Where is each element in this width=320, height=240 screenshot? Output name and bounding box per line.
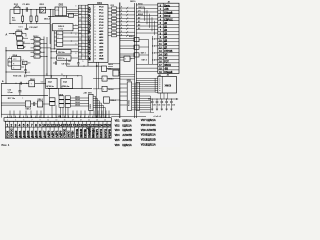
svg-text:ГОТОВ: ГОТОВ <box>75 129 79 138</box>
svg-text:МС КР1816ВЕ31 ПРОЦЕССОР ОЗУ: МС КР1816ВЕ31 ПРОЦЕССОР ОЗУ <box>88 7 92 61</box>
svg-text:DD7.2: DD7.2 <box>142 60 147 62</box>
svg-text:2: 2 <box>11 123 13 127</box>
svg-text:1: 1 <box>35 44 36 46</box>
svg-text:0,1мк: 0,1мк <box>8 92 13 94</box>
svg-text:ЧТЕН: ЧТЕН <box>71 131 75 138</box>
svg-text:1: 1 <box>7 120 8 122</box>
svg-text:9: 9 <box>94 28 95 30</box>
svg-text:DD1.2: DD1.2 <box>44 19 51 21</box>
svg-text:CT2: CT2 <box>13 59 16 61</box>
svg-text:1: 1 <box>35 52 36 54</box>
svg-text:25: 25 <box>104 120 106 122</box>
svg-text:21: 21 <box>88 120 90 122</box>
svg-text:DD8.5: DD8.5 <box>75 105 80 107</box>
svg-text:ПИТ5В: ПИТ5В <box>83 129 87 138</box>
svg-text:ДАН6: ДАН6 <box>38 130 42 138</box>
svg-text:3: 3 <box>94 10 95 12</box>
svg-text:ОБЩИЙ: ОБЩИЙ <box>87 127 91 137</box>
svg-text:23: 23 <box>96 120 98 122</box>
svg-text:R9 10к: R9 10к <box>58 52 66 54</box>
svg-text:АДР0: АДР0 <box>46 130 50 138</box>
svg-text:С8 0,1: С8 0,1 <box>25 72 30 74</box>
svg-text:АДР1: АДР1 <box>50 130 54 138</box>
svg-text:АЛ307Б: АЛ307Б <box>122 139 132 142</box>
svg-text:СЧЕТЧ: СЧЕТЧ <box>95 129 99 138</box>
svg-text:КНОП1: КНОП1 <box>99 128 103 137</box>
svg-text:1: 1 <box>35 39 36 41</box>
svg-text:DD3.1: DD3.1 <box>17 30 22 32</box>
svg-text:Д0: Д0 <box>138 17 140 19</box>
svg-text:3: 3 <box>15 120 16 122</box>
svg-text:16: 16 <box>94 49 96 51</box>
svg-text:DD5.2: DD5.2 <box>108 64 113 66</box>
svg-text:DD6.2: DD6.2 <box>26 109 31 111</box>
svg-text:5: 5 <box>23 120 24 122</box>
svg-text:ВВОДН: ВВОДН <box>91 128 95 138</box>
svg-text:C10: C10 <box>153 105 156 107</box>
svg-text:УН7А: УН7А <box>89 103 92 108</box>
svg-text:C12: C12 <box>162 105 165 107</box>
svg-text:1: 1 <box>103 79 104 81</box>
svg-text:Д2: Д2 <box>138 24 140 26</box>
svg-text:VD5: VD5 <box>115 139 120 142</box>
svg-text:R17 10к: R17 10к <box>8 98 15 100</box>
svg-text:15: 15 <box>94 46 96 48</box>
svg-text:ДАН1: ДАН1 <box>18 130 22 138</box>
svg-text:9: 9 <box>40 120 41 122</box>
svg-text:DD9: DD9 <box>88 93 92 95</box>
svg-text:КТ315: КТ315 <box>129 99 131 106</box>
svg-text:КД521А: КД521А <box>122 144 131 147</box>
svg-text:C1 430: C1 430 <box>22 3 30 6</box>
svg-text:ДАН0: ДАН0 <box>14 130 18 138</box>
svg-text:11: 11 <box>47 120 49 122</box>
svg-text:АЛ307Б: АЛ307Б <box>146 129 156 132</box>
svg-text:Д1: Д1 <box>138 21 140 23</box>
svg-text:1: 1 <box>24 41 25 43</box>
svg-text:100: 100 <box>28 62 31 64</box>
svg-text:КД522Б: КД522Б <box>122 129 131 132</box>
svg-text:DD8.3: DD8.3 <box>75 102 80 104</box>
svg-text:КД522Б: КД522Б <box>146 139 155 142</box>
svg-text:3: 3 <box>75 15 76 17</box>
svg-text:10: 10 <box>94 31 96 33</box>
svg-text:1: 1 <box>35 48 36 50</box>
svg-text:DD1: DD1 <box>97 2 102 5</box>
svg-text:A: A <box>5 32 7 36</box>
svg-text:27: 27 <box>46 74 48 76</box>
svg-text:3: 3 <box>75 34 76 36</box>
svg-text:DD2: DD2 <box>59 4 64 6</box>
svg-text:ДАН5: ДАН5 <box>34 130 38 138</box>
svg-text:VD2: VD2 <box>115 124 120 127</box>
svg-text:3: 3 <box>75 53 76 55</box>
svg-text:DD5.3: DD5.3 <box>108 79 113 81</box>
svg-text:R11 1к: R11 1к <box>58 58 65 60</box>
svg-text:DD7.1: DD7.1 <box>141 52 146 54</box>
svg-text:DD3.2: DD3.2 <box>33 36 38 38</box>
svg-text:КД521А: КД521А <box>122 124 131 127</box>
svg-text:1: 1 <box>35 56 36 58</box>
svg-text:АДР2: АДР2 <box>54 130 58 138</box>
svg-text:2: 2 <box>94 7 95 9</box>
svg-text:5: 5 <box>23 123 25 127</box>
svg-text:СТРОБ: СТРОБ <box>63 129 67 138</box>
svg-text:2: 2 <box>25 47 26 49</box>
svg-text:26: 26 <box>107 123 111 127</box>
svg-text:7: 7 <box>31 123 33 127</box>
svg-text:ДАН3: ДАН3 <box>26 130 30 138</box>
svg-text:СБРОС: СБРОС <box>138 7 145 9</box>
svg-text:DD8.1: DD8.1 <box>75 97 80 99</box>
svg-text:17: 17 <box>94 52 96 54</box>
svg-text:СБРОС: СБРОС <box>10 128 14 137</box>
svg-text:11: 11 <box>94 34 96 36</box>
svg-text:КНОП2: КНОП2 <box>103 128 107 137</box>
svg-text:14: 14 <box>94 43 96 45</box>
svg-text:9: 9 <box>82 61 83 63</box>
svg-text:17: 17 <box>72 120 74 122</box>
svg-text:DD6.1: DD6.1 <box>30 79 35 81</box>
svg-text:DD11: DD11 <box>127 80 132 82</box>
svg-text:КД521А: КД521А <box>146 134 155 137</box>
svg-text:3: 3 <box>15 123 17 127</box>
svg-text:DD2.2: DD2.2 <box>58 26 65 28</box>
svg-text:ДАН2: ДАН2 <box>22 130 26 138</box>
svg-text:DD10: DD10 <box>130 1 136 3</box>
svg-text:9: 9 <box>39 123 41 127</box>
svg-text:7: 7 <box>31 120 32 122</box>
svg-text:2: 2 <box>9 57 10 59</box>
svg-text:PME: PME <box>99 58 104 60</box>
svg-text:ALE: ALE <box>99 54 104 57</box>
svg-text:DD6.3: DD6.3 <box>38 99 43 101</box>
svg-text:DD8.4: DD8.4 <box>111 99 116 102</box>
svg-text:ДАН4: ДАН4 <box>30 130 34 138</box>
svg-text:DD4: DD4 <box>13 54 18 57</box>
svg-text:ЗВОНК: ЗВОНК <box>79 128 83 137</box>
svg-text:7: 7 <box>94 22 95 24</box>
svg-text:1: 1 <box>125 59 126 61</box>
svg-text:УМС8: УМС8 <box>165 84 172 87</box>
svg-text:6: 6 <box>94 19 95 21</box>
svg-text:Д3: Д3 <box>138 28 140 30</box>
svg-text:АДР3: АДР3 <box>59 130 63 138</box>
svg-text:C6: C6 <box>68 61 70 63</box>
svg-text:1: 1 <box>103 89 104 91</box>
svg-text:23: 23 <box>61 74 63 76</box>
svg-text:ДЛ88,4м: ДЛ88,4м <box>62 85 70 88</box>
svg-text:CT10: CT10 <box>58 29 63 31</box>
svg-text:КС133А: КС133А <box>146 124 155 127</box>
svg-text:Рис. 1: Рис. 1 <box>2 143 10 147</box>
svg-text:3: 3 <box>75 44 76 46</box>
svg-text:15: 15 <box>64 120 66 122</box>
svg-text:VD4: VD4 <box>115 134 120 137</box>
svg-text:ЗАПС: ЗАПС <box>67 130 71 137</box>
svg-text:ВВОД: ВВОД <box>138 14 144 16</box>
svg-text:19: 19 <box>94 58 96 60</box>
svg-text:4: 4 <box>94 13 95 15</box>
svg-text:18: 18 <box>94 55 96 57</box>
svg-text:C11: C11 <box>158 105 161 107</box>
svg-text:12: 12 <box>94 37 96 39</box>
svg-text:КД521А: КД521А <box>122 120 131 123</box>
svg-text:6: 6 <box>27 123 29 127</box>
svg-text:8: 8 <box>35 123 37 127</box>
svg-text:13: 13 <box>94 40 96 42</box>
svg-text:ЦГ88,3м: ЦГ88,3м <box>46 86 54 88</box>
svg-text:4: 4 <box>19 123 21 127</box>
svg-text:C7: C7 <box>21 59 23 61</box>
svg-text:х1 х2 х3: х1 х2 х3 <box>153 116 160 118</box>
svg-text:DD1: DD1 <box>40 4 45 6</box>
svg-text:CT2: CT2 <box>56 10 60 12</box>
svg-text:КД521А: КД521А <box>146 119 155 122</box>
svg-text:РЕЗРВ: РЕЗРВ <box>107 129 111 138</box>
svg-text:ПУСК: ПУСК <box>6 130 10 137</box>
svg-text:VD6: VD6 <box>115 144 120 147</box>
svg-text:3: 3 <box>75 5 76 7</box>
svg-text:VD3: VD3 <box>115 129 120 132</box>
svg-text:ДАН7: ДАН7 <box>42 130 46 138</box>
svg-text:5: 5 <box>94 16 95 18</box>
svg-text:1: 1 <box>6 123 8 127</box>
svg-text:DD5.4: DD5.4 <box>108 88 113 91</box>
svg-text:КД521А: КД521А <box>146 144 155 147</box>
svg-text:АЛ307Б: АЛ307Б <box>122 134 132 137</box>
svg-text:19: 19 <box>80 120 82 122</box>
svg-text:C13: C13 <box>167 105 170 107</box>
svg-text:DD9.1: DD9.1 <box>129 36 134 38</box>
svg-text:5: 5 <box>9 61 10 63</box>
svg-text:R15 C14: R15 C14 <box>13 75 22 78</box>
svg-text:13: 13 <box>55 120 57 122</box>
svg-text:VD1: VD1 <box>115 120 120 123</box>
svg-text:C2 0,047: C2 0,047 <box>29 26 38 29</box>
svg-text:х: х <box>22 98 23 100</box>
svg-text:R13: R13 <box>111 5 114 7</box>
svg-text:3: 3 <box>75 24 76 26</box>
svg-text:8: 8 <box>94 25 95 27</box>
